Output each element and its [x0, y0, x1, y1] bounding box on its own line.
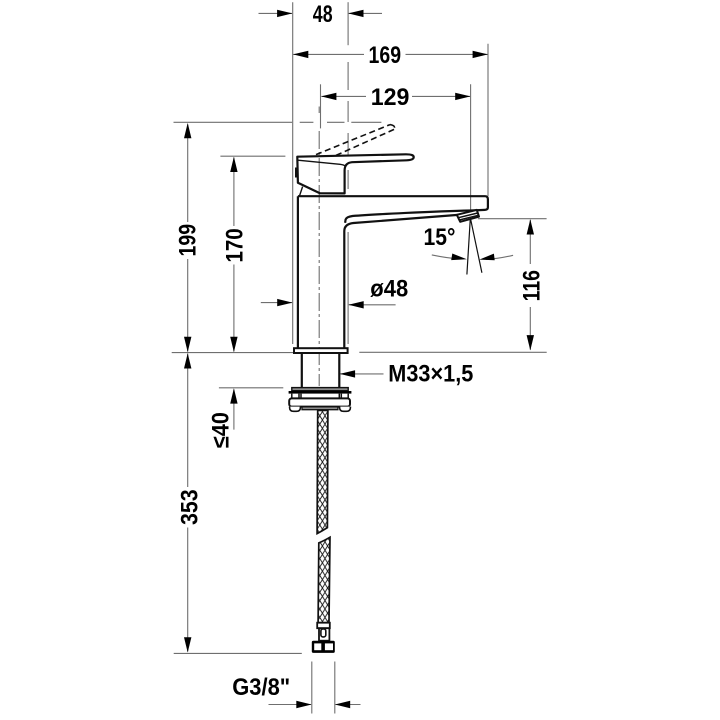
- ref line spout outlet (y=218.7) for dim 116: [478, 218, 547, 220]
- arrow G3/8 right: [335, 701, 350, 708]
- vertical dash-dot centerline of faucet axis: [318, 131, 320, 386]
- handle outline: [297, 154, 413, 193]
- arrow 116 top: [527, 219, 534, 234]
- arrow M33x1,5: [340, 370, 355, 377]
- svg-text:15°: 15°: [424, 224, 456, 251]
- arrow diam48 right: [348, 301, 363, 308]
- arrow 353 top: [184, 353, 191, 368]
- dashed raised lever position: [316, 125, 395, 156]
- spout lower wedge fill: [344, 211, 471, 232]
- dim line 116 (x=530.3): [529, 220, 531, 350]
- svg-text:170: 170: [222, 228, 249, 262]
- arrow diam48 left: [277, 299, 292, 306]
- ref line top of raised lever (y=124) solid part: [174, 121, 293, 123]
- ref line hose end (y=653.4): [174, 652, 302, 654]
- svg-text:G3/8": G3/8": [232, 674, 290, 701]
- ref line top of lever (y=156.2) for dim 170: [220, 155, 285, 157]
- ext line 129 left (x=320.9): [320, 84, 322, 128]
- arrow 199 top: [184, 123, 191, 138]
- washer row ticks: [292, 394, 348, 399]
- dim line 48 (y=13.4): [259, 12, 383, 14]
- handle fill: [297, 154, 413, 193]
- arrow 199 bottom: [184, 337, 191, 352]
- svg-text:48: 48: [313, 1, 333, 28]
- leader line diam 48 right (y=304.8): [349, 304, 396, 306]
- right ear: [340, 407, 351, 412]
- svg-text:169: 169: [369, 42, 402, 69]
- hose upper segment: [317, 410, 328, 533]
- arrow G3/8 left: [296, 701, 311, 708]
- svg-text:ø48: ø48: [370, 276, 408, 303]
- arrow 48 left: [277, 10, 292, 17]
- arrow 48 right: [348, 10, 363, 17]
- spray direction lines 15 deg: [467, 219, 482, 275]
- threaded shaft M33: [302, 353, 340, 388]
- arrowheads (black): [184, 10, 534, 709]
- handle inner top edge: [298, 160, 346, 166]
- ref line top of raised lever dashed part: [300, 121, 382, 123]
- arc arrow 15 deg left: [432, 255, 460, 259]
- ext line 169 right (x=488): [487, 44, 489, 196]
- ext line 129 right / spray vertex (x=470.6): [470, 84, 472, 218]
- arc arrow 15 deg right: [486, 255, 513, 259]
- arrow 116 bottom: [527, 335, 534, 350]
- left ear: [290, 407, 301, 412]
- mounting plate (black): [289, 391, 352, 394]
- arrow 129 right: [455, 93, 470, 100]
- hose neck slot: [321, 629, 326, 637]
- hose crimp collar: [317, 623, 330, 629]
- ext line right dashed segments (x=348.1): [347, 62, 349, 344]
- dim line 169 (y=54.4): [293, 53, 487, 55]
- svg-text:≤40: ≤40: [208, 412, 235, 448]
- arrow 353 bottom: [184, 637, 191, 652]
- arrow 169 right: [473, 51, 488, 58]
- ext line G3/8 left (x=311.8): [311, 662, 313, 714]
- ref line base left (y=348.6): [172, 352, 294, 354]
- svg-text:353: 353: [177, 489, 204, 525]
- svg-text:116: 116: [519, 270, 546, 301]
- leader line diam 48 left (y=302.6): [261, 302, 292, 304]
- arrow 170 bottom: [230, 337, 237, 352]
- leader line M33x1,5 (y=373.9): [341, 373, 384, 375]
- nut windows: [314, 643, 321, 650]
- svg-text:129: 129: [371, 84, 410, 111]
- column left edge: [297, 196, 299, 348]
- base plinth: [294, 348, 348, 353]
- handle inner lower diagonal: [299, 187, 302, 197]
- arrow 15deg left: [451, 254, 467, 261]
- hose nut: [312, 641, 335, 653]
- svg-text:M33×1,5: M33×1,5: [388, 360, 473, 387]
- mounting plate (gray): [292, 388, 348, 391]
- ext line right of handle top solid (x=348.1): [347, 2, 349, 45]
- spout + column fill: [298, 196, 488, 348]
- arrow 170 top: [230, 157, 237, 172]
- spout top edge and outlet end: [298, 196, 488, 223]
- ref line base right (y=352.3) for dim 116: [359, 351, 546, 353]
- arrow 169 left: [293, 51, 308, 58]
- ext line left of body (x=292.7): [292, 2, 294, 344]
- handle pivot notch: [295, 168, 298, 178]
- dim line 129 (y=96.4): [321, 95, 470, 97]
- mounting block: [289, 398, 350, 406]
- bottom gray band: [302, 407, 338, 410]
- aerator tip: [457, 210, 479, 222]
- dim line 199/353 (x=187.7): [187, 125, 189, 652]
- hose lower segment: [318, 537, 330, 623]
- spout lower edge and column right edge: [344, 215, 458, 348]
- ref line mounting plate (y=387.8) for dim 40: [219, 387, 283, 389]
- dim line G3/8 (y=704.5): [269, 704, 361, 706]
- ext line G3/8 right (x=334.8): [334, 662, 336, 714]
- arrow 40 top: [230, 388, 237, 403]
- dim line 170/40 (x=233.9): [233, 158, 235, 430]
- hose neck: [319, 628, 329, 641]
- arrow 15deg right: [479, 254, 494, 261]
- arrow 129 left: [321, 93, 336, 100]
- svg-text:199: 199: [175, 224, 202, 257]
